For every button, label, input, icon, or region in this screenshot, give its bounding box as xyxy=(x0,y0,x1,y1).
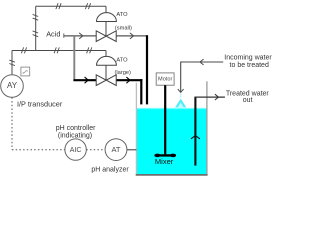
I/P ramp symbol xyxy=(23,70,28,73)
flow arrow treated (right) xyxy=(215,94,219,100)
instrument circle AY (I/P transducer) xyxy=(1,75,24,98)
flow arrow on small valve outlet xyxy=(130,33,134,39)
svg-text:AIC: AIC xyxy=(70,147,82,154)
svg-text:Mixer: Mixer xyxy=(155,157,174,166)
acid branch pipe down to large valve xyxy=(73,36,75,79)
flow arrow on acid pipe xyxy=(79,33,83,39)
pneumatic line horizontal mid xyxy=(12,50,106,52)
large control valve actuator dome xyxy=(97,56,117,65)
mixer impeller xyxy=(155,154,176,156)
small valve stem xyxy=(105,22,107,37)
pneumatic slash marks on branch riser xyxy=(33,14,39,20)
instrument circle AT (pH analyzer) xyxy=(105,139,127,161)
large valve outlet pipe (thick) xyxy=(116,79,143,81)
electric signal dashed line to AIC xyxy=(12,149,65,151)
pneumatic line top horizontal xyxy=(36,5,106,7)
probe line AT to tank xyxy=(127,149,136,151)
pneumatic slash marks on top line xyxy=(56,3,61,9)
large valve stem xyxy=(105,65,107,80)
svg-text:AY: AY xyxy=(7,81,18,90)
pneumatic slash marks on AY riser xyxy=(9,60,15,66)
treated water outlet pipe xyxy=(194,97,196,166)
flow arrow on large valve inlet xyxy=(85,77,89,83)
svg-text:pH analyzer: pH analyzer xyxy=(91,166,129,173)
electric signal dashed line AIC to AT xyxy=(86,149,105,151)
svg-text:Incoming water: Incoming water xyxy=(224,55,272,62)
svg-text:AT: AT xyxy=(111,145,120,154)
small valve body (bowtie) xyxy=(96,31,116,42)
svg-text:to be treated: to be treated xyxy=(230,62,269,69)
tank right wall xyxy=(206,81,208,174)
flow arrow treated (up in pipe) xyxy=(191,136,200,139)
svg-text:Motor: Motor xyxy=(158,76,172,82)
pneumatic stem to small valve actuator xyxy=(105,6,107,13)
svg-text:(small): (small) xyxy=(115,26,132,32)
pneumatic branch riser to top xyxy=(35,6,37,50)
flow arrow incoming (left) xyxy=(200,59,204,65)
svg-text:(large): (large) xyxy=(115,70,132,76)
motor box xyxy=(156,73,174,85)
small control valve actuator dome xyxy=(97,13,117,22)
flow arrow on large valve outlet xyxy=(126,77,130,83)
pneumatic stem to large valve actuator xyxy=(105,51,107,58)
mixer shaft xyxy=(164,85,166,154)
svg-text:pH controller: pH controller xyxy=(56,125,96,132)
tank liquid xyxy=(137,108,207,175)
tank left wall xyxy=(135,83,137,175)
small valve outlet pipe xyxy=(116,35,148,37)
instrument circle AIC (pH controller) xyxy=(65,139,86,160)
flow arrow incoming (down) xyxy=(178,89,184,92)
small valve feed drop pipe into tank (thick) xyxy=(146,35,148,104)
large valve inlet pipe (thick) xyxy=(73,79,96,81)
acid source tick xyxy=(63,33,65,37)
svg-text:ATO: ATO xyxy=(116,57,128,63)
svg-text:ATO: ATO xyxy=(116,12,128,18)
large valve feed drop pipe into tank (thick) xyxy=(140,79,142,104)
water spray into tank xyxy=(175,99,186,108)
pneumatic line AY riser xyxy=(11,51,13,75)
svg-text:I/P transducer: I/P transducer xyxy=(17,99,63,108)
svg-text:out: out xyxy=(243,97,253,104)
I/P function square xyxy=(21,67,30,76)
pneumatic slash marks on mid line xyxy=(21,47,26,53)
acid pipe to small valve xyxy=(64,35,97,37)
incoming water line xyxy=(181,62,224,92)
tank bottom xyxy=(136,174,208,176)
large valve body (bowtie) xyxy=(96,75,116,86)
svg-text:Acid: Acid xyxy=(46,29,60,38)
treated water line to right xyxy=(194,96,225,98)
electric signal dashed line AY down xyxy=(11,97,13,149)
